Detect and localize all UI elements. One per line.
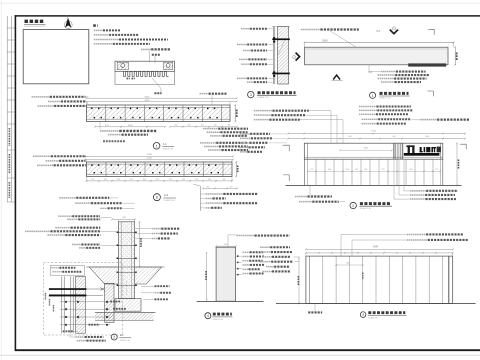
footing title 1-1 — [111, 334, 117, 340]
svg-text:400: 400 — [348, 136, 351, 138]
footing spread trapezoid — [89, 267, 118, 284]
svg-text:1700: 1700 — [371, 131, 377, 133]
wall cladding vertical section — [272, 27, 274, 85]
svg-text:370: 370 — [230, 186, 233, 188]
plan corner leader — [429, 29, 434, 35]
section bar 2 left labels — [33, 155, 51, 157]
column elevation body — [216, 247, 236, 301]
section view chevron marker right — [296, 53, 300, 61]
footing right dim 1100 — [139, 222, 141, 267]
elevation 1 connector label — [299, 201, 313, 203]
mount detail small labels — [110, 301, 121, 303]
svg-text:1150: 1150 — [345, 169, 349, 171]
svg-text:1: 1 — [156, 144, 158, 148]
north arrow — [64, 21, 72, 29]
svg-text:3040: 3040 — [373, 247, 379, 249]
svg-text:140: 140 — [364, 169, 367, 171]
svg-text:270: 270 — [310, 169, 313, 171]
svg-text:3040: 3040 — [147, 158, 153, 160]
footing center leader — [126, 281, 128, 295]
elevation 1 sign band — [304, 143, 443, 159]
elevation 1 panel dims — [308, 170, 441, 172]
footing leader label stack — [59, 197, 76, 199]
svg-text:3: 3 — [362, 313, 364, 317]
svg-text:300: 300 — [130, 179, 133, 181]
svg-text:SCALE 1:30: SCALE 1:30 — [258, 96, 270, 99]
elevation 2 top labels — [407, 233, 426, 235]
elevation 2 body — [306, 256, 453, 303]
elevation 1 steel plate label — [420, 119, 437, 121]
elevation 1 lower panels — [307, 159, 309, 185]
bar detail title J-1 — [103, 140, 125, 142]
corrugated zigzag profile — [124, 71, 169, 76]
svg-text:300: 300 — [228, 125, 231, 127]
section bar 2 bottom dims — [87, 180, 233, 182]
elevation 2 title 3 — [360, 312, 366, 318]
column elevation title 4 — [205, 313, 211, 319]
svg-text:300: 300 — [409, 169, 412, 171]
section bar 2 right dim 430 — [235, 162, 237, 177]
bar2 top-right label block — [200, 142, 216, 144]
svg-text:300: 300 — [208, 179, 211, 181]
footing ground strip — [95, 312, 154, 320]
elevation 1 ground line — [286, 184, 462, 186]
site plan title — [25, 20, 45, 23]
svg-text:300: 300 — [91, 179, 94, 181]
footing wall anchor markers — [117, 232, 119, 234]
sign plan right dim 430 — [454, 47, 456, 65]
svg-text:1500: 1500 — [425, 136, 429, 138]
mount detail rotated dims — [45, 293, 47, 300]
section bar 1 bottom dims — [95, 126, 165, 128]
corrugated detail lower box — [115, 71, 175, 84]
svg-text:SCALE 1:30: SCALE 1:30 — [163, 148, 173, 151]
footing base block — [115, 299, 141, 312]
wall section anchor bolts — [272, 38, 290, 40]
section bar 2 anchor markers — [91, 165, 92, 166]
elevation 2 left labels — [260, 246, 270, 248]
elevation 1 right upper label block — [359, 106, 377, 108]
left title strip — [6, 16, 8, 202]
svg-text:300: 300 — [169, 179, 172, 181]
elevation 1 upper-left label block — [254, 110, 273, 112]
svg-text:300: 300 — [355, 169, 358, 171]
svg-text:SCALE 1:30: SCALE 1:30 — [213, 318, 223, 321]
svg-text:2: 2 — [352, 204, 354, 208]
svg-text:SCALE 1:30: SCALE 1:30 — [368, 317, 378, 320]
mount detail wall strip 1 — [76, 276, 86, 333]
section bar 1 right dim 430 — [234, 105, 236, 122]
section bar 1 anchor markers — [91, 108, 92, 109]
corrugated detail leader to dim — [152, 78, 161, 93]
elevation 2 ground line — [276, 302, 476, 304]
section view chevron marker down — [390, 30, 398, 34]
mount detail tie rods — [49, 288, 87, 290]
column elevation labels right — [237, 235, 255, 237]
column elevation base line — [197, 300, 264, 302]
svg-text:J-1: J-1 — [163, 142, 167, 146]
elevation 1 LIMIT logo glyphs — [406, 145, 414, 147]
sheet border frame — [15, 15, 480, 17]
footing right labels lower — [155, 285, 170, 287]
section bar 1 body — [87, 105, 231, 122]
svg-text:300: 300 — [328, 169, 331, 171]
column elevation dim 1100 — [206, 253, 208, 300]
elevation 1 right lower labels — [410, 190, 426, 192]
svg-text:4: 4 — [207, 314, 209, 318]
sign plan notes right — [381, 71, 396, 73]
svg-text:2-2: 2-2 — [164, 193, 168, 197]
section bar 2 body — [87, 162, 233, 177]
svg-text:6: 6 — [156, 196, 158, 200]
svg-text:300: 300 — [156, 179, 159, 181]
svg-text:300: 300 — [143, 179, 146, 181]
footing wall column — [118, 222, 134, 299]
wall section detail title 3 — [248, 91, 254, 97]
corrugated detail labels — [141, 48, 151, 50]
elevation 1 step label — [295, 196, 308, 198]
elevation 1 right dim 1100 — [456, 143, 458, 185]
svg-text:2: 2 — [113, 335, 115, 339]
svg-text:300: 300 — [175, 125, 178, 127]
sign plan rectangle — [305, 47, 449, 65]
sign plan dark lettering strip — [408, 63, 446, 66]
svg-text:720: 720 — [381, 169, 384, 171]
section title 2-2 — [153, 194, 160, 201]
footing wall right labels upper — [152, 228, 162, 230]
elevation 1 left leader labels — [240, 133, 250, 135]
elevation 1 title 2 — [350, 202, 356, 208]
svg-text:SCALE 1:30: SCALE 1:30 — [164, 199, 174, 202]
svg-text:SCALE 1:30: SCALE 1:30 — [360, 207, 372, 210]
svg-text:1: 1 — [372, 94, 374, 98]
svg-text:3: 3 — [250, 93, 252, 97]
sign plan label — [301, 29, 321, 31]
site plan rectangle — [23, 30, 89, 84]
section bar 1 bottom-right labels — [203, 128, 218, 130]
svg-text:P.A: P.A — [377, 30, 381, 33]
elevation 2 left dim 1100 — [298, 258, 300, 304]
mount detail bottom labels — [63, 330, 73, 332]
mount detail label box — [50, 265, 84, 275]
svg-text:300: 300 — [117, 179, 120, 181]
svg-text:3000: 3000 — [147, 154, 153, 156]
mount detail bolts — [65, 301, 67, 303]
svg-text:SCALE 1:30: SCALE 1:30 — [380, 97, 392, 100]
svg-text:300: 300 — [207, 186, 210, 188]
sign plan title 1 — [370, 92, 376, 98]
section bar 1 left labels — [32, 96, 50, 98]
svg-text:400: 400 — [392, 136, 395, 138]
material list bracket — [203, 187, 237, 189]
svg-text:SCALE 1:30: SCALE 1:30 — [120, 339, 130, 342]
elevation 1 logo hatched square — [394, 143, 403, 159]
sheet paper edge — [0, 2, 480, 4]
corrugated sign section detail — [115, 61, 175, 71]
section bar 1 bottom-left leader labels — [99, 122, 101, 130]
svg-text:300: 300 — [214, 125, 217, 127]
svg-text:300: 300 — [201, 125, 204, 127]
elevation 1 logo underline bar — [404, 153, 440, 156]
elevation 1 corner leaders — [283, 145, 289, 151]
section bar 1 top-right label — [200, 93, 209, 95]
mount detail wall strip 2 — [105, 283, 114, 322]
svg-text:3040: 3040 — [322, 39, 328, 43]
svg-text:300: 300 — [104, 179, 107, 181]
svg-text:300: 300 — [195, 179, 198, 181]
notes text block — [93, 24, 98, 27]
plan corner leader 2 — [428, 91, 433, 96]
elevation 2 stone label — [308, 311, 322, 313]
mount detail members — [61, 276, 63, 333]
sign plan level symbol — [333, 75, 340, 80]
mount detail dashed boundary — [44, 263, 123, 335]
svg-text:300: 300 — [182, 179, 185, 181]
wall section leader labels — [241, 28, 250, 30]
svg-text:300: 300 — [223, 179, 226, 181]
svg-text:270: 270 — [435, 169, 438, 171]
svg-text:300: 300 — [188, 125, 191, 127]
